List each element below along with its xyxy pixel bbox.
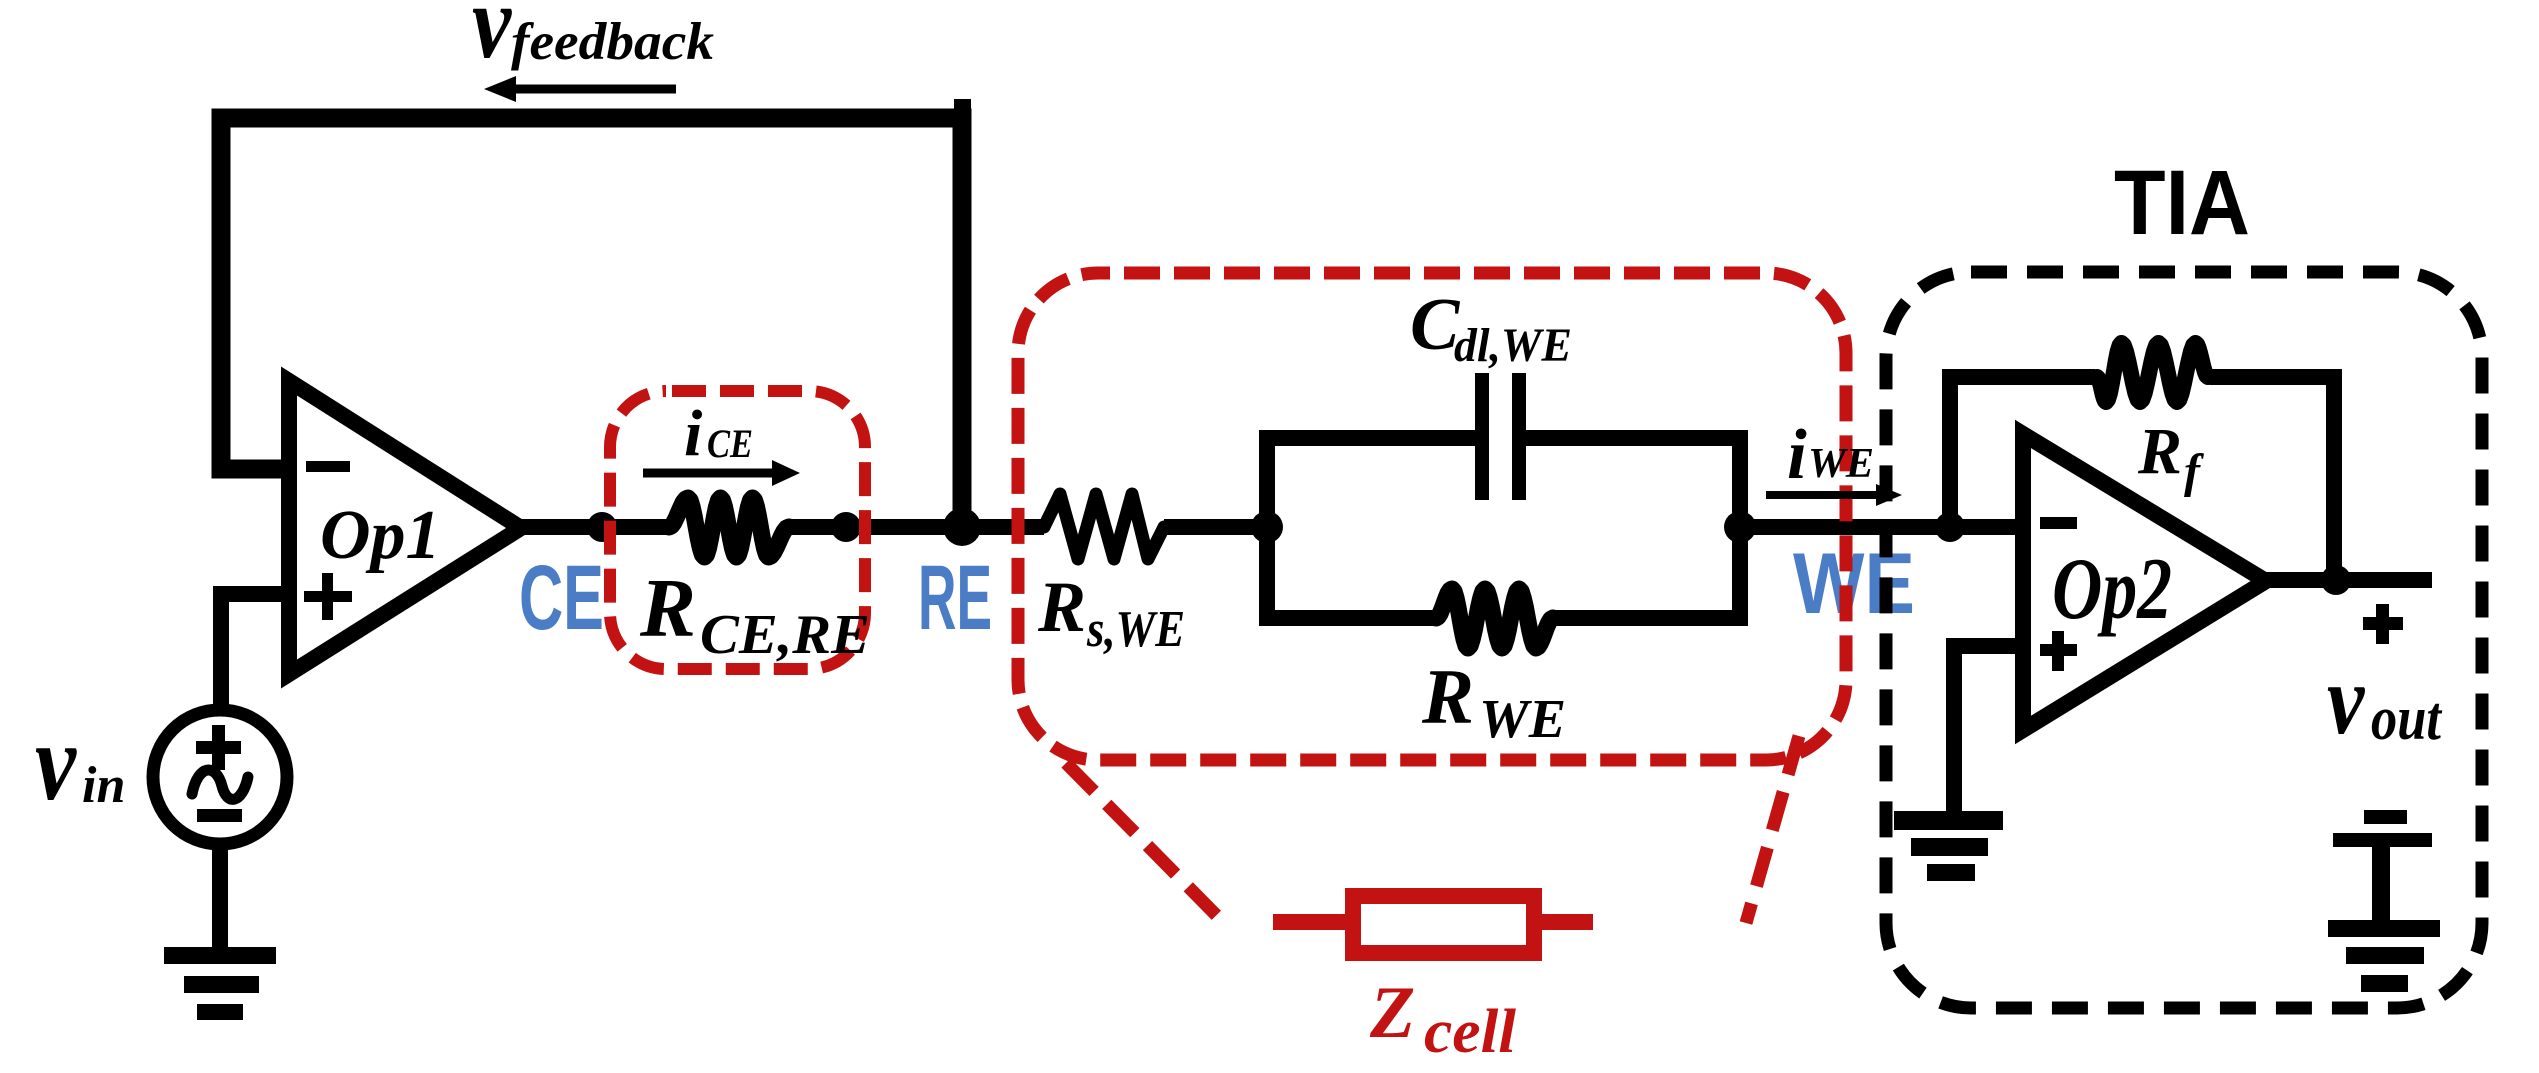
svg-text:in: in <box>82 757 125 814</box>
wire callout diagonal right <box>1746 736 1799 923</box>
svg-text:WE: WE <box>1793 536 1915 632</box>
label Z_cell <box>1369 972 1517 1066</box>
svg-text:CE,RE: CE,RE <box>700 604 870 666</box>
resistor R_WE <box>1436 589 1553 648</box>
wire i_WE direction arrow <box>1766 484 1902 506</box>
ground below Op2 <box>1894 811 2003 881</box>
red dashed box around cell impedance Z_cell <box>1018 273 1846 760</box>
resistor Z_cell (box style) <box>1353 896 1534 953</box>
wire capacitor to right branch <box>1526 430 1748 446</box>
label v_in <box>35 700 125 822</box>
svg-text:v: v <box>472 0 512 80</box>
black dashed box TIA <box>1886 272 2482 1008</box>
op-amp Op2 <box>2023 434 2266 730</box>
wire Op2 non-inverting input to ground <box>1954 646 2023 813</box>
label R_s,WE value <box>1037 567 1185 658</box>
node WE junction dot <box>1724 511 1756 543</box>
capacitor C_dl,WE <box>1482 373 1519 500</box>
source v_in (AC voltage source) <box>153 710 287 844</box>
svg-text:dl,WE: dl,WE <box>1454 319 1572 372</box>
svg-text:R: R <box>1037 567 1086 647</box>
svg-text:CE: CE <box>707 421 753 466</box>
wire R_s,WE to parallel cell <box>1164 519 1270 535</box>
svg-text:WE: WE <box>1808 441 1874 487</box>
ground below output capacitor <box>2328 920 2440 992</box>
svg-text:Op1: Op1 <box>320 497 441 574</box>
label i_CE current <box>684 397 753 470</box>
svg-text:cell: cell <box>1424 998 1517 1066</box>
svg-text:i: i <box>684 397 703 470</box>
node Op2 inverting input junction dot <box>1935 512 1965 542</box>
wire feedback loop from RE to Op1 inverting input <box>221 118 962 527</box>
wire parallel cell right branch <box>1732 438 1748 618</box>
wire Op1 non-inverting input to source <box>221 594 290 708</box>
svg-text:out: out <box>2371 685 2442 753</box>
wire bottom branch left <box>1259 610 1438 626</box>
capacitor to ground at output <box>2333 810 2432 923</box>
wire Op1 output to resistor R_CE,RE <box>518 519 669 535</box>
label R_CE,RE value <box>639 562 870 666</box>
node junction right of R_CE,RE <box>831 512 861 542</box>
node output junction dot <box>2321 565 2351 595</box>
label v_feedback <box>472 0 715 80</box>
resistor R_s,WE <box>1044 494 1164 559</box>
svg-text:v: v <box>35 700 77 822</box>
wire Op2 output <box>2262 572 2432 588</box>
wire top branch to capacitor <box>1259 430 1475 446</box>
wire callout diagonal left <box>1066 763 1222 921</box>
svg-text:Op2: Op2 <box>2052 541 2172 638</box>
resistor R_f <box>2097 343 2208 402</box>
svg-text:R: R <box>639 562 696 655</box>
wire WE to Op2 inverting input <box>1740 519 2023 535</box>
svg-text:R: R <box>2137 415 2182 488</box>
svg-text:RE: RE <box>918 547 992 649</box>
svg-text:WE: WE <box>1479 688 1566 749</box>
label R_WE value <box>1421 653 1566 749</box>
label v_out <box>2327 644 2442 754</box>
resistor R_CE,RE <box>669 498 789 557</box>
node CE junction dot <box>587 512 617 542</box>
svg-text:s,WE: s,WE <box>1086 601 1185 658</box>
svg-text:R: R <box>1421 653 1474 740</box>
label C_dl,WE value <box>1410 284 1572 372</box>
op-amp Op1 <box>289 381 521 674</box>
wire R_f to output <box>2210 377 2334 580</box>
wire v_feedback direction arrow <box>484 76 676 102</box>
wire bottom branch right <box>1551 610 1748 626</box>
svg-text:i: i <box>1787 416 1807 494</box>
svg-text:feedback: feedback <box>511 13 715 71</box>
ground below v_in <box>164 947 276 1020</box>
node left junction of parallel cell <box>1251 511 1283 543</box>
wire Op2 feedback loop to R_f <box>1950 377 2095 527</box>
wire i_CE direction arrow <box>643 460 800 486</box>
svg-text:TIA: TIA <box>2114 152 2250 254</box>
red dashed box around R_CE,RE <box>610 391 865 669</box>
node v_out plus marker <box>2363 604 2403 644</box>
svg-text:Z: Z <box>1369 972 1415 1054</box>
svg-text:CE: CE <box>519 547 604 649</box>
label i_WE current <box>1787 416 1874 494</box>
svg-text:v: v <box>2327 644 2365 754</box>
wire R_CE,RE to R_s,WE <box>789 519 1044 535</box>
label R_f value <box>2137 415 2204 498</box>
wire Z_cell leads <box>1273 914 1593 930</box>
wire source to ground <box>212 842 228 949</box>
node RE junction dot <box>943 508 981 546</box>
wire parallel cell left branch <box>1259 438 1275 618</box>
